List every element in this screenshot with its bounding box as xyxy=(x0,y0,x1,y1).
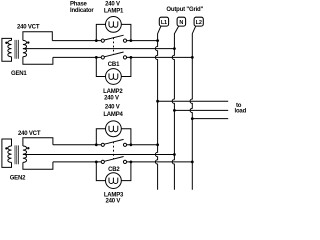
wire bus N vertical xyxy=(172,26,178,189)
transformer T2 primary coil xyxy=(8,146,12,162)
lamp LAMP4 branch wires xyxy=(96,129,131,145)
transformer T1 phasing dot secondary xyxy=(27,41,29,43)
svg-text:LAMP3: LAMP3 xyxy=(104,193,124,199)
svg-text:240 V: 240 V xyxy=(104,96,119,102)
breaker CB2 pole B blade xyxy=(104,157,123,162)
svg-text:240 V: 240 V xyxy=(105,199,120,204)
wire T1 secondary bottom tap xyxy=(23,57,53,64)
svg-text:240 V: 240 V xyxy=(105,105,120,111)
wire rail L2 bottom xyxy=(53,161,192,163)
svg-text:CB1: CB1 xyxy=(108,62,120,68)
wire bus L2 vertical xyxy=(190,26,196,189)
terminal L1 xyxy=(159,17,168,26)
transformer T1 primary coil xyxy=(8,40,12,56)
transformer T2 phasing dot secondary xyxy=(27,147,29,149)
svg-text:GEN1: GEN1 xyxy=(11,71,27,77)
svg-text:LAMP4: LAMP4 xyxy=(103,112,123,118)
wire T1 secondary top tap xyxy=(23,32,52,41)
svg-text:Indicator: Indicator xyxy=(70,8,94,14)
transformer T2 secondary coil xyxy=(23,146,27,162)
svg-text:240 VCT: 240 VCT xyxy=(18,131,41,137)
junction dots rail top group xyxy=(95,39,194,59)
breaker CB2 pole B terminals xyxy=(101,160,104,163)
svg-text:Output "Grid": Output "Grid" xyxy=(166,7,203,13)
wire T2 center tap rail N bottom xyxy=(23,154,175,156)
breaker CB1 pole B terminals xyxy=(101,56,104,59)
breaker CB1 pole A blade xyxy=(104,35,123,40)
transformer T1 phasing dot primary xyxy=(5,42,7,44)
wire to-load line C xyxy=(192,118,228,120)
svg-text:L2: L2 xyxy=(196,20,202,26)
svg-text:GEN2: GEN2 xyxy=(10,175,26,181)
wire rail L1 top xyxy=(52,40,157,42)
wire rail L2 top xyxy=(53,56,192,58)
lamp LAMP4 xyxy=(106,121,122,137)
lamp LAMP1 xyxy=(106,17,122,33)
transformer T2 core xyxy=(15,145,19,164)
junction dots bus verticals xyxy=(156,100,194,120)
svg-text:240 V: 240 V xyxy=(105,1,120,7)
wire to-load line A xyxy=(158,100,229,102)
wire bus L1 vertical xyxy=(155,26,160,189)
junction dots rail bottom group xyxy=(95,143,194,163)
wire GEN2 primary connection loop xyxy=(2,139,12,167)
lamp LAMP2 branch wires xyxy=(96,57,131,76)
wire T1 center tap rail N top xyxy=(23,48,175,50)
wire T2 secondary bottom tap xyxy=(23,162,53,169)
breaker CB2 pole A blade xyxy=(104,139,123,144)
lamp LAMP2 filament xyxy=(109,74,118,80)
transformer T1 core xyxy=(15,40,19,59)
svg-text:LAMP1: LAMP1 xyxy=(104,9,124,15)
lamp LAMP3 filament xyxy=(109,178,118,184)
svg-text:LAMP2: LAMP2 xyxy=(103,89,123,95)
lamp LAMP4 filament xyxy=(109,126,118,132)
lamp LAMP2 xyxy=(106,69,122,85)
wire to-load line B xyxy=(174,109,228,111)
wire rail L1 bottom xyxy=(53,144,158,146)
svg-text:Phase: Phase xyxy=(70,1,88,7)
transformer T1 secondary coil xyxy=(23,40,27,56)
lamp LAMP1 filament xyxy=(109,21,118,27)
lamp LAMP3 xyxy=(106,173,122,189)
breaker CB1 gang link (dashed) xyxy=(113,37,115,54)
svg-text:240 VCT: 240 VCT xyxy=(17,25,40,31)
svg-text:load: load xyxy=(235,108,247,114)
breaker CB2 gang link (dashed) xyxy=(113,142,115,159)
wire T2 secondary top tap xyxy=(23,138,53,146)
terminal L2 xyxy=(194,17,203,26)
svg-text:N: N xyxy=(179,20,183,26)
lamp LAMP3 branch wires xyxy=(96,162,131,181)
lamp LAMP1 branch wires xyxy=(96,24,131,40)
transformer T2 phasing dot primary xyxy=(5,147,7,149)
svg-text:CB2: CB2 xyxy=(108,167,120,173)
breaker CB2 pole A terminals xyxy=(101,143,104,146)
wire GEN1 primary connection loop xyxy=(2,38,12,61)
breaker CB1 pole B blade xyxy=(104,52,123,57)
breaker CB1 pole A terminals xyxy=(101,39,104,42)
terminal N xyxy=(177,17,186,26)
svg-text:L1: L1 xyxy=(161,20,167,26)
